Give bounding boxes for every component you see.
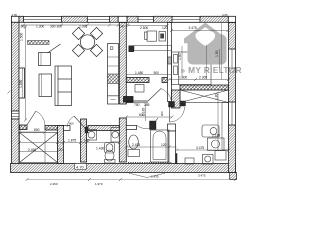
svg-text:2.460: 2.460 xyxy=(50,182,58,186)
svg-text:2.435: 2.435 xyxy=(132,143,140,147)
svg-text:1.300: 1.300 xyxy=(36,24,44,28)
svg-text:2.435: 2.435 xyxy=(151,175,159,179)
svg-text:1.950: 1.950 xyxy=(19,80,23,88)
svg-text:120: 120 xyxy=(57,148,63,152)
svg-text:120: 120 xyxy=(84,139,90,143)
svg-text:800: 800 xyxy=(34,128,40,132)
svg-text:1.875: 1.875 xyxy=(68,139,76,143)
svg-text:300: 300 xyxy=(57,24,63,28)
svg-text:3.475: 3.475 xyxy=(189,26,197,30)
svg-text:» MY RIELTOR: » MY RIELTOR xyxy=(181,65,242,75)
svg-text:900: 900 xyxy=(160,111,164,116)
svg-text:1.300: 1.300 xyxy=(179,76,187,80)
svg-text:2.185: 2.185 xyxy=(142,108,146,116)
svg-text:4.05: 4.05 xyxy=(222,13,228,17)
svg-text:140: 140 xyxy=(119,24,125,28)
svg-text:120: 120 xyxy=(162,26,168,30)
svg-text:1.50: 1.50 xyxy=(215,50,219,57)
svg-text:900: 900 xyxy=(21,24,27,28)
svg-text:1.50: 1.50 xyxy=(178,53,182,60)
svg-text:2.500: 2.500 xyxy=(140,26,148,30)
svg-text:300: 300 xyxy=(50,24,56,28)
svg-text:2.185: 2.185 xyxy=(212,134,220,138)
svg-text:750: 750 xyxy=(134,103,140,107)
svg-text:2.305: 2.305 xyxy=(199,76,207,80)
svg-text:2.095: 2.095 xyxy=(79,24,87,28)
svg-text:900: 900 xyxy=(154,71,160,75)
svg-text:1.430: 1.430 xyxy=(96,147,104,151)
svg-text:4.05: 4.05 xyxy=(12,13,18,17)
svg-text:4.70: 4.70 xyxy=(76,164,85,169)
svg-text:120: 120 xyxy=(161,143,167,147)
svg-text:600: 600 xyxy=(69,121,74,125)
svg-text:1.80: 1.80 xyxy=(215,93,219,100)
svg-text:3.475: 3.475 xyxy=(198,174,206,178)
svg-text:1.970: 1.970 xyxy=(95,182,103,186)
svg-text:1.480: 1.480 xyxy=(135,71,143,75)
svg-text:1.500: 1.500 xyxy=(19,33,23,41)
svg-text:3.475: 3.475 xyxy=(196,146,204,150)
svg-text:285: 285 xyxy=(144,103,150,107)
